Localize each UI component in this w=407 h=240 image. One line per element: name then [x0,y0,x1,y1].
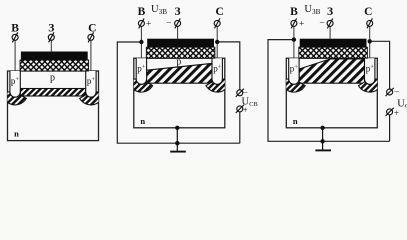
wire collector terminal fig2 [216,26,218,58]
terminal B fig3 [291,18,297,28]
junction dot substrate fig2 [175,126,179,130]
svg-text:В: В [290,6,298,18]
svg-text:В: В [11,23,19,35]
p+ region left fig3 [289,58,299,84]
ground symbol fig2 [170,151,186,153]
p+ region right fig1 [86,71,96,97]
svg-text:−: − [166,19,171,29]
p+ region left fig2 [136,58,146,84]
widened depletion region fig2 [147,63,212,83]
junction dot substrate fig3 [320,126,324,130]
wire substrate to ground fig3 [322,128,324,151]
svg-text:p: p [176,57,181,68]
wire collector terminal fig1 [90,40,92,71]
junction curve under left p+ fig1 [2,92,26,105]
svg-text:+: + [299,20,304,30]
terminal B fig2 [138,18,144,28]
wire emitter terminal fig2 [177,26,179,38]
oxide layer crosshatch fig1 [20,60,89,71]
junction dot collector fig2 [215,40,219,44]
oxide layer crosshatch fig2 [146,47,215,58]
svg-text:В: В [138,6,146,18]
junction curve under right p+ fig1 [80,92,104,105]
svg-text:З: З [327,6,333,18]
junction dot base fig2 [139,40,143,44]
terminal + of Ucb fig2 [236,89,244,97]
terminal E fig2 [175,18,181,28]
junction curve under left p+ fig2 [128,79,152,92]
junction depletion bar fig1 [20,89,85,97]
svg-text:−: − [394,87,399,97]
svg-text:+: + [394,108,399,118]
emitter metallization fig3 [300,39,367,48]
terminal E fig3 [327,18,333,28]
terminal E fig1 [48,32,54,42]
svg-text:−: − [319,19,324,29]
junction curve under left p+ fig3 [281,79,305,92]
p+ region right fig2 [212,58,222,84]
junction curve under right p+ fig3 [358,79,382,92]
svg-text:С: С [364,6,372,18]
wire base terminal fig3 [293,26,295,58]
fully depleted base region fig3 [299,59,364,83]
junction curve under right p+ fig2 [206,79,230,92]
svg-text:+: + [146,20,151,30]
wire collector to loop fig3 [370,41,390,89]
p+ region right fig3 [365,58,375,84]
wire substrate to ground fig2 [176,128,178,152]
terminal C fig2 [214,18,220,28]
svg-text:С: С [88,23,96,35]
wire lower terminal to loop fig3 [389,115,391,141]
svg-text:С: С [215,6,223,18]
wire collector to loop fig2 [217,42,240,90]
chip body n-substrate fig3 [286,58,377,128]
svg-text:p: p [50,73,55,84]
svg-text:+: + [243,105,248,115]
wire emitter terminal fig1 [50,40,52,51]
terminal B fig1 [12,32,18,42]
wire base terminal fig2 [140,26,142,58]
terminal + of Uc fig3 [386,88,394,96]
svg-text:З: З [48,23,54,35]
emitter metallization fig1 [21,52,88,61]
svg-text:n: n [140,116,145,126]
wire emitter terminal fig3 [329,26,331,38]
junction dot collector fig3 [368,39,372,43]
chip body n-substrate fig2 [134,58,225,128]
junction dot loop fig3 [320,139,324,143]
svg-text:n: n [14,129,19,139]
wire base to loop fig3 [268,40,390,142]
junction dot loop fig2 [175,141,179,145]
emitter metallization fig2 [147,39,214,48]
terminal - of Uc fig3 [386,108,394,116]
wire base to loop fig2 [117,42,240,143]
terminal C fig3 [367,18,373,28]
p+ region left fig1 [10,71,20,97]
svg-text:З: З [175,6,181,18]
wire collector terminal fig3 [369,26,371,58]
ground symbol fig3 [315,149,331,151]
wire base terminal fig1 [14,40,16,71]
terminal - of Ucb fig2 [236,105,244,113]
junction dot base fig3 [292,37,296,41]
oxide layer crosshatch fig3 [299,47,368,58]
wire lower terminal to loop fig2 [239,112,241,143]
svg-text:n: n [293,116,298,126]
chip body n-substrate fig1 [8,71,99,141]
terminal C fig1 [88,32,94,42]
